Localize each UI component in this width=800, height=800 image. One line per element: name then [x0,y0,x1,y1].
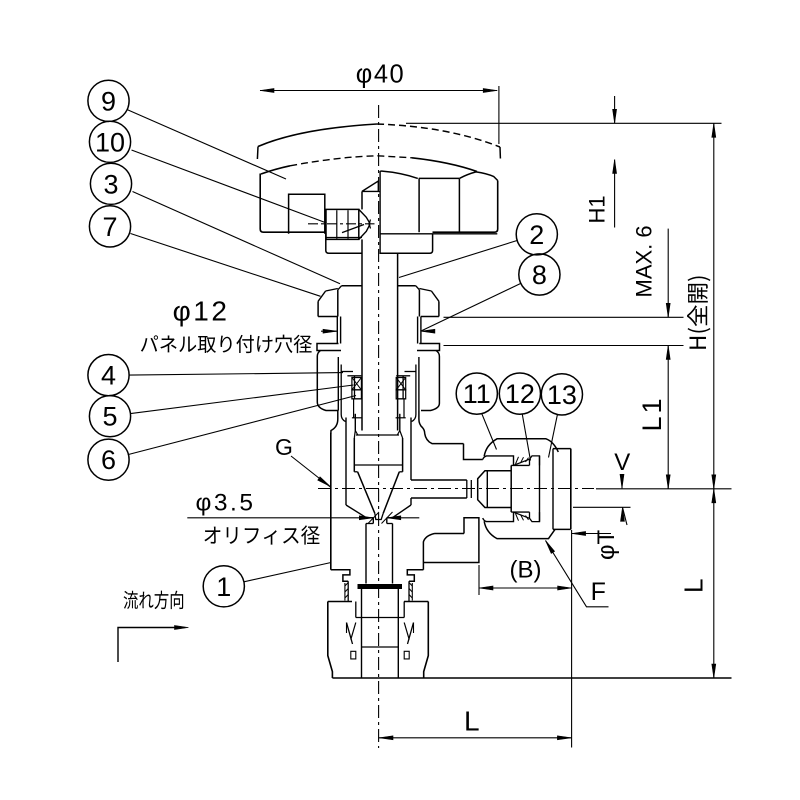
needle tip [375,513,383,519]
needle holder lower wall left [353,438,355,472]
packing bottom line [352,398,362,400]
seat slope right [392,505,411,518]
inlet nut bore wall left [355,602,357,618]
dimension B right arrow [558,586,572,590]
outlet nut left edge [539,456,541,522]
outlet passage wall bottom [411,497,467,499]
inlet tube joint line [362,646,399,648]
dimension MAX6 down arrow [666,303,670,317]
dimension L right up arrow [712,489,716,503]
body top edge right of stem [425,434,464,444]
balloon 7 [89,206,130,247]
outlet passage wall top [411,479,467,481]
thread ticks bottom [516,514,519,521]
svg-text:MAX. 6: MAX. 6 [632,225,657,297]
svg-text:G: G [275,434,293,460]
leader line balloon 1 [244,563,331,582]
inlet ferrule right [408,623,414,645]
bonnet top face [342,285,363,287]
flow direction arrow [118,628,181,663]
leader line balloon 11 [482,414,497,450]
bonnet skirt wall right [412,365,416,422]
dimension phiT arrow [572,532,586,536]
leader line balloon 9 [128,110,287,179]
panel washer left [317,344,341,351]
dimension phi12 left arrow [321,330,337,332]
svg-text:φ3.5: φ3.5 [196,490,256,517]
back ferrule top [530,456,540,466]
svg-text:13: 13 [547,380,577,410]
knob outer arc left end hook [256,147,259,160]
dimension phi40 right arrow [483,89,497,93]
balloon 6 [88,439,129,480]
ferrule cage left edge [510,465,512,512]
balloon 12 [499,373,540,414]
gland lower left [353,399,355,418]
panel nut facet left [337,290,339,317]
needle cone left [358,472,375,514]
dimension phi35 left tick [368,512,379,524]
outlet nut facet line [552,449,554,530]
reference line knob top [406,122,722,124]
handle hex nut right facet top [459,172,497,181]
svg-text:L1: L1 [637,395,667,431]
outlet nut right face [570,449,572,530]
front ferrule cone bottom [514,512,530,518]
dimension phi40 left arrow [260,89,274,93]
stem right edge [397,254,399,286]
fitting head facet line [486,471,488,508]
front ferrule cone top [514,459,530,465]
balloon 11 [456,373,497,414]
handle hex nut left facet top [380,171,418,178]
outlet nut bottom facet line [553,528,571,530]
dimension phi12 right arrow [421,329,435,333]
body step to thread boss top [464,444,483,460]
stem left edge lower [361,239,363,286]
dimension phi35 line left [187,517,373,519]
dimension B left arrow [479,586,493,590]
knob hub collar line left [326,237,362,239]
needle holder groove [355,431,358,436]
body left edge [330,433,332,570]
svg-text:2: 2 [529,220,544,250]
dimension V bottom reference [573,506,631,508]
packing ring box lower right [396,390,406,399]
leader line balloon 4 [129,373,343,376]
thread boss ridge top [483,456,514,466]
seat slope left [346,505,367,518]
bottom face and reference line [332,677,731,679]
panel nut outer flat left [317,301,319,316]
tube end dark band [358,584,403,589]
dimension H text [687,276,710,348]
stem left edge through bonnet [361,286,363,431]
leader line balloon 2 [399,241,517,278]
balloon 13 [541,374,582,415]
dimension L bottom left arrow [379,736,393,740]
ferrule cage top edge [511,464,529,466]
body cavity wall left [345,418,347,506]
knob left edge [260,174,326,233]
balloon 10 [89,121,130,162]
dimension phi35 left arrow [359,516,373,520]
svg-text:φT: φT [593,529,620,560]
gland follower top [341,371,353,373]
outlet stub end [466,480,468,498]
handle hex nut middle facet top [419,177,459,179]
outlet nut hex corner top [484,439,558,457]
needle cone base [354,471,357,473]
needle holder transition right [400,431,403,439]
svg-text:φ12: φ12 [173,296,230,327]
dimension phi35 right arrow [387,516,401,520]
dimension L bottom line [379,737,571,739]
dimension MAX6 tail [667,229,669,318]
flow direction text [124,591,184,610]
leader line balloon 10 [132,150,327,223]
stem right edge through bonnet [397,286,399,431]
dimension L right line [713,489,715,678]
dimension B line [479,587,572,589]
knob outer arc right end hook [499,147,501,159]
orifice shoulder [366,523,373,525]
label F arrow [546,541,555,554]
set screw socket lines [336,210,338,238]
needle joint line [354,464,402,466]
gland wall right [402,376,404,399]
reference line outlet centerline extension [596,488,732,490]
dimension phi40 extension [498,86,500,144]
inlet tube wall right [397,589,399,678]
inlet nut outline [328,602,429,679]
svg-text:1: 1 [216,572,231,602]
inlet bore wall left [365,524,367,584]
inlet nut bore wall right [403,602,405,618]
panel nut bottom face [318,316,337,318]
packing ring box upper left [352,378,362,390]
reference line panel seat [444,345,684,347]
inlet nut top face [328,601,352,603]
svg-text:10: 10 [95,127,125,157]
dimension B extension [478,565,480,595]
orifice wall right [386,518,388,524]
body bottom step right [407,570,423,581]
inlet stub thread wall right [408,581,410,601]
panel washer right [417,344,440,351]
dimension L1 line [667,346,669,489]
dimension H down arrow [712,475,716,489]
stem top slot triangle [362,181,380,191]
leader line balloon 12 [522,414,530,460]
thread ticks top [516,457,519,464]
bonnet skirt wall left [341,365,345,422]
stem dimple at screw tip [369,220,372,229]
centerline horizontal outlet axis [318,488,594,490]
dimension L1 down arrow [666,475,670,489]
svg-text:11: 11 [463,379,491,409]
svg-text:3: 3 [103,169,118,199]
dimension H1 up arrow [613,160,617,174]
balloon 8 [519,254,560,295]
balloon 1 [203,566,244,607]
balloon 5 [89,396,130,437]
balloon 2 [516,214,557,255]
knob hub skirt [326,233,433,254]
svg-text:L: L [679,579,709,593]
dimension phiT leader [572,533,611,535]
dimension H1 upper tail [614,96,616,123]
dimension V top arrow [620,474,624,488]
handle hex nut bottom line [380,233,497,235]
svg-text:φ40: φ40 [356,61,405,89]
inlet stub thread wall left [347,581,349,601]
knob inner arc solid left [261,166,290,174]
leader line balloon 5 [131,385,354,414]
dimension V top arrow tail [621,474,623,488]
label G leader [291,456,330,487]
balloon 9 [88,80,129,121]
dimension H1 lower tail [614,160,616,228]
svg-text:9: 9 [101,86,116,116]
seat face [367,517,374,519]
leader line balloon 6 [128,396,356,455]
knob outer arc dashed right [377,124,500,147]
centerline set screw axis [308,223,375,225]
leader line balloon 8 [421,283,521,331]
svg-text:L: L [464,706,480,737]
bonnet top chamfer right [416,286,420,290]
knob section block [289,194,325,234]
outlet nut top facet line [553,448,571,450]
svg-text:5: 5 [102,402,117,432]
leader line balloon 7 [131,234,321,297]
balloon 3 [90,163,131,204]
outlet nut hex corner bottom [484,521,555,538]
panel nut outer facet top left [326,289,338,292]
knob right edge [433,181,498,233]
bonnet top chamfer left [338,286,342,290]
needle holder transition left [354,431,355,439]
knob inner arc dashed middle [290,156,412,166]
body flange left profile [317,351,338,435]
orifice wall left [372,518,374,524]
leader line balloon 3 [133,192,341,284]
dimension phi40 line [260,90,497,92]
dimension H up arrow [712,123,716,137]
set screw body [326,209,359,239]
dimension V bottom arrow tail [623,507,628,525]
handle hex nut facet line 2 [458,178,460,232]
gland wall left [354,376,356,399]
svg-text:(B): (B) [510,557,542,584]
fitting head block [478,471,512,508]
body boss underside [435,533,465,535]
reference line panel nut bottom [444,316,684,318]
body flange facet line left [337,357,339,411]
handle hex nut facet line 1 [418,178,420,232]
needle holder upper wall left [354,414,356,431]
inlet tube wall left [361,589,363,678]
packing ring box upper right [396,378,406,390]
centerline vertical stem axis [378,105,380,748]
inlet ferrule left [347,623,353,645]
body bottom step left [331,570,350,581]
bonnet neck right [420,317,422,344]
packing ring box lower left [352,390,362,399]
set screw cone point [359,209,369,239]
svg-text:4: 4 [101,361,116,391]
gland lower right [403,399,405,418]
label F leader [546,541,609,607]
extension line nut face [571,530,573,748]
ferrule cage bottom edge [511,511,529,513]
label panel hole text [141,335,312,353]
dimension L1 up arrow [666,346,670,360]
body flange right profile [419,351,440,434]
dimension L right down arrow [712,664,716,678]
svg-text:6: 6 [101,445,116,475]
dimension V bottom arrow [621,507,625,521]
panel nut outer flat right [438,301,440,316]
dimension L bottom right arrow [557,736,571,740]
knob inner arc solid right [412,158,477,172]
label orifice text [204,525,319,544]
stem left edge upper [361,191,363,209]
dimension phi35 right tick [382,512,393,524]
svg-text:12: 12 [505,379,535,409]
thread boss ridge bottom [483,512,514,522]
body step under boss [423,518,479,563]
svg-text:V: V [614,449,630,476]
label G arrow [318,477,331,487]
leader line balloon 13 [549,414,558,457]
dimension H1 down arrow [613,109,617,123]
stem section split line [379,171,381,254]
knob hub section slant [342,225,364,233]
dimension phi35 line right [387,517,420,519]
body cavity wall right [410,418,412,481]
back ferrule bottom [530,512,540,522]
needle holder lower wall right [402,438,404,472]
needle holder upper wall right [399,414,401,431]
inlet bore wall right [392,524,394,584]
knob outer arc solid left [258,124,377,147]
svg-text:H1: H1 [585,195,610,223]
inlet ferrule joint line [356,617,404,619]
bonnet neck left [336,317,338,344]
dimension H line [713,123,715,489]
body flange facet line right [418,357,420,411]
svg-text:8: 8 [532,260,547,290]
svg-text:7: 7 [102,212,117,242]
svg-text:F: F [591,578,606,606]
needle cone right [383,472,399,514]
panel nut outer facet top right [419,289,431,292]
panel nut facet right [418,290,420,317]
body lower right corner [423,534,434,570]
balloon 4 [88,355,129,396]
